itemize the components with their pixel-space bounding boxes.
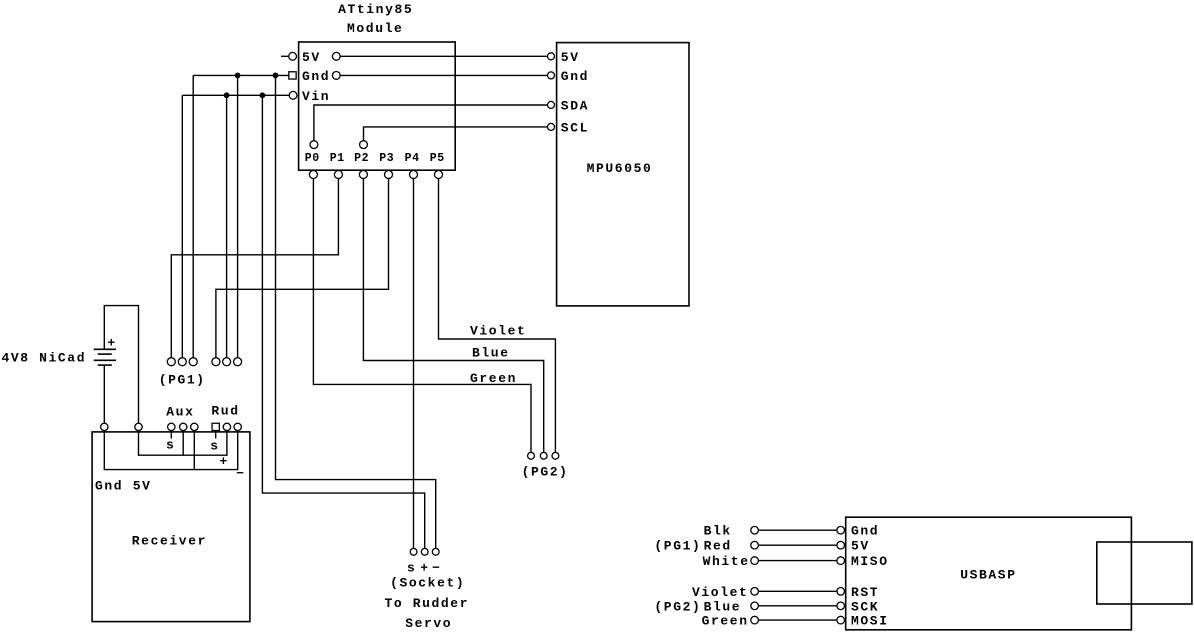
svg-text:P3: P3 [379,152,394,165]
svg-text:+: + [420,560,429,575]
pin SDA (MPU6050) [548,101,555,108]
wire White to USBASP MISO [751,557,845,565]
svg-text:(Socket): (Socket) [390,576,465,591]
wire Vin dot down to PG1 pin5 [226,95,228,357]
svg-text:(PG2): (PG2) [522,464,569,479]
wire Gnd rail down to PG1 pin3 [192,75,194,357]
svg-text:Red: Red [704,539,732,554]
svg-text:5V: 5V [302,50,321,65]
battery B1 plates [94,349,116,365]
svg-text:To Rudder: To Rudder [384,596,469,611]
svg-text:P2: P2 [354,152,369,165]
wire Vin rail down to PG1 pin2 [181,95,183,357]
svg-text:Gnd: Gnd [851,524,879,539]
wire Gnd rail ATtiny to MPU6050 [340,74,547,76]
svg-text:Green: Green [702,614,749,629]
wire battery - to receiver [103,365,105,423]
svg-text:SDA: SDA [561,98,589,113]
svg-text:RST: RST [851,585,879,600]
connector PG1 pin1 [167,358,175,366]
svg-text:P0: P0 [305,152,320,165]
svg-text:s: s [166,437,175,452]
svg-text:Gnd: Gnd [95,478,123,493]
label s + - (socket) [407,560,442,575]
svg-text:−: − [432,560,441,575]
pin 5V (MPU6050) [548,53,555,60]
wire Gnd rail (left) [193,74,289,76]
pin Gnd (ATtiny left, square) [289,72,296,79]
svg-text:Violet: Violet [470,323,526,338]
pin P5 (ATtiny bottom) [435,171,443,179]
svg-text:Green: Green [470,371,517,386]
wire stub Aux + join [182,431,184,456]
wire SCL P2 to MPU6050 [364,127,548,141]
servo socket pin - [432,548,439,555]
wire stub Rud s [215,431,217,439]
connector PG1 pin3 [189,358,197,366]
wire Red to USBASP 5V [751,541,845,549]
svg-text:+: + [107,336,116,351]
wire P4 to servo socket s [413,179,415,549]
pin Rud - [234,423,241,430]
pin Gnd (ATtiny inner) [332,72,340,80]
connector PG1 pin5 [223,358,231,366]
wire stub Aux - join [193,431,195,470]
pin 5V (receiver, from battery +) [135,423,142,430]
receiver box [92,432,250,622]
svg-text:MOSI: MOSI [851,614,889,629]
wire Blk to USBASP Gnd [751,526,845,534]
svg-text:Module: Module [347,21,403,36]
connector PG2 pin1 [528,452,535,459]
wire Gnd dot down to PG1 pin6 [237,75,239,357]
svg-text:(PG1): (PG1) [159,372,206,387]
junction dot Vin-rail x262.4 [260,92,266,98]
wire P5 Violet to PG2 pin3 [439,179,556,453]
pin P2 (ATtiny bottom) [359,171,367,179]
pin Rud s (square) [212,423,219,430]
pin Gnd (receiver, from battery -) [101,423,108,430]
svg-text:Blue: Blue [704,599,742,614]
svg-text:Rud: Rud [211,403,239,418]
pin labels P0-P5 [305,152,445,165]
wire P0 Green to PG2 pin1 [313,179,531,453]
svg-text:5V: 5V [561,50,580,65]
wire SDA P0 to MPU6050 [314,105,548,141]
svg-text:P5: P5 [430,152,445,165]
pin P0 (ATtiny inner) [310,141,318,149]
pin Gnd (MPU6050) [548,72,555,79]
pin P1 (ATtiny bottom) [334,171,342,179]
svg-text:s: s [210,438,219,453]
connector PG2 pin2 [540,452,547,459]
connector PG1 pin2 [178,358,186,366]
pin Vin (ATtiny left) [289,91,297,99]
pin P0 (ATtiny bottom) [309,171,317,179]
svg-text:Gnd: Gnd [302,69,330,84]
USB connector box [1097,542,1192,604]
pin 5V (ATtiny inner) [332,52,340,60]
svg-text:SCL: SCL [561,120,589,135]
svg-text:Blk: Blk [704,524,732,539]
wire battery + to receiver [104,306,138,424]
USBASP box [846,517,1132,630]
svg-text:5V: 5V [133,478,152,493]
wire P2 Blue to PG2 pin2 [363,179,543,453]
svg-text:(PG1): (PG1) [654,539,701,554]
svg-text:5V: 5V [851,539,870,554]
pin Aux - [191,423,198,430]
junction dot Vin-rail x226.6 [224,92,230,98]
junction dot Gnd-rail x237.6 [235,73,241,79]
wire Vin rail (left) [182,94,289,96]
servo socket pin + [421,548,428,555]
wire P1 to PG1 pin1 [171,179,338,358]
wire Blue to USBASP SCK [751,602,845,610]
svg-text:Gnd: Gnd [561,69,589,84]
pin Rud + [223,423,230,430]
wire receiver Gnd internal to Aux-/Rud- [104,431,237,470]
svg-text:+: + [219,454,228,469]
svg-text:Vin: Vin [302,89,330,104]
svg-text:4V8 NiCad: 4V8 NiCad [2,350,87,365]
svg-text:(PG2): (PG2) [654,599,701,614]
svg-text:SCK: SCK [851,599,879,614]
wire Vin dot to servo socket + [262,95,424,548]
svg-text:Receiver: Receiver [132,533,207,548]
junction dot Gnd-rail x275.5 [273,73,279,79]
MPU6050 box U2 [557,43,689,306]
svg-text:USBASP: USBASP [960,568,1016,583]
svg-text:MPU6050: MPU6050 [587,161,653,176]
wire Gnd dot to servo socket - [276,75,436,548]
pin Aux + [180,423,187,430]
wire Green to USBASP MOSI [751,616,845,624]
pin P2 (ATtiny inner) [360,141,368,149]
servo socket pin s [410,548,417,555]
svg-text:P4: P4 [405,152,420,165]
svg-text:s: s [407,560,416,575]
wire receiver 5V internal to Aux+/Rud+ [139,431,227,456]
svg-text:ATtiny85: ATtiny85 [338,2,413,17]
pin 5V (ATtiny left) [281,52,297,60]
connector PG1 pin6 [234,358,242,366]
wire stub Aux s [170,431,172,439]
pin SCL (MPU6050) [548,123,555,130]
connector PG1 pin4 [212,358,220,366]
svg-text:Servo: Servo [405,616,452,631]
pin P3 (ATtiny bottom) [385,171,393,179]
wire 5V rail ATtiny to MPU6050 [340,55,547,57]
wire P3 to PG1 pin4 [216,179,389,358]
ATtiny85 module box U1 [299,42,456,170]
connector PG2 pin3 [552,452,559,459]
svg-text:White: White [703,554,750,569]
svg-text:Violet: Violet [692,585,748,600]
svg-text:P1: P1 [330,152,345,165]
wire Violet to USBASP RST [751,588,845,596]
svg-text:MISO: MISO [851,554,889,569]
pin P4 (ATtiny bottom) [410,171,418,179]
pin Aux s [168,423,175,430]
svg-text:Blue: Blue [472,345,510,360]
svg-text:Aux: Aux [166,405,194,420]
